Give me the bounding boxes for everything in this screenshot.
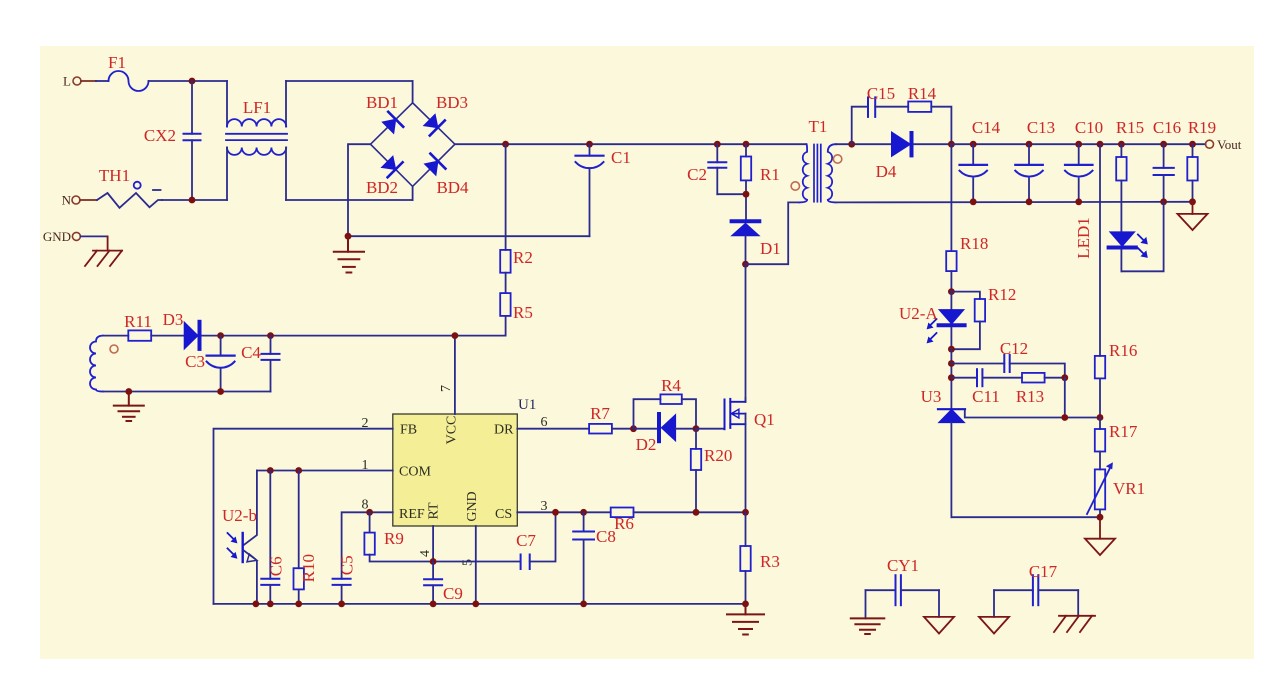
resistor R17: [1095, 418, 1138, 470]
MOSFET Q1: [696, 398, 775, 512]
svg-text:CX2: CX2: [144, 126, 176, 145]
svg-text:GND: GND: [43, 229, 71, 244]
svg-text:C4: C4: [241, 343, 261, 362]
wire: [103, 335, 128, 337]
capacitor C11: [951, 369, 1022, 406]
svg-text:R6: R6: [614, 514, 634, 533]
svg-text:L: L: [63, 74, 71, 89]
pin 8 wire (REF): [342, 512, 393, 579]
svg-text:7: 7: [439, 385, 454, 392]
wire: [1064, 378, 1066, 418]
node C1 tap: [586, 141, 593, 148]
svg-text:5: 5: [461, 559, 476, 566]
diode BD3: [424, 93, 468, 136]
svg-text:R7: R7: [590, 404, 610, 423]
node C3 bottom: [217, 388, 224, 395]
pin 5 wire (GND): [475, 526, 477, 604]
wire: [149, 80, 228, 82]
svg-text:C3: C3: [185, 352, 205, 371]
svg-text:D1: D1: [760, 239, 781, 258]
pin 2 wire (FB): [214, 429, 393, 604]
diode D2: [634, 414, 697, 454]
node U2-b emitter rail: [253, 601, 260, 608]
svg-text:C8: C8: [596, 527, 616, 546]
node C12 left: [948, 360, 955, 367]
svg-text:REF: REF: [399, 507, 425, 522]
ground triangle (output): [1178, 202, 1208, 230]
svg-text:BD2: BD2: [366, 178, 398, 197]
capacitor C12: [951, 339, 1064, 378]
svg-text:T1: T1: [809, 117, 828, 136]
node VR1 bottom: [1097, 514, 1104, 521]
svg-text:C14: C14: [972, 118, 1001, 137]
node R16 top: [1097, 141, 1104, 148]
capacitor C17: [994, 562, 1078, 605]
node C3 top: [217, 332, 224, 339]
resistor R20: [691, 429, 733, 513]
capacitor C4: [241, 336, 279, 392]
node R19 bottom: [1189, 198, 1196, 205]
ground (CY1 left): [851, 590, 885, 634]
resistor R16: [1095, 144, 1138, 417]
ground (primary): [334, 236, 364, 272]
ground triangle (C17 left): [979, 590, 1009, 633]
svg-text:FB: FB: [400, 423, 417, 438]
node C4 top: [267, 332, 274, 339]
resistor R14: [908, 102, 931, 112]
capacitor C5: [333, 555, 357, 604]
svg-text:U2-b: U2-b: [222, 506, 257, 525]
node R16/R17: [1097, 414, 1104, 421]
svg-text:TH1: TH1: [99, 166, 130, 185]
port L: [63, 74, 96, 89]
node R1 top: [743, 141, 750, 148]
resistor R2: [500, 144, 533, 272]
node C6 top: [267, 467, 274, 474]
svg-text:C15: C15: [867, 84, 895, 103]
svg-text:R13: R13: [1016, 387, 1044, 406]
chassis ground (GND port): [85, 236, 122, 266]
svg-text:R1: R1: [760, 165, 780, 184]
node R10 top: [295, 467, 302, 474]
pin 6 wire (DR): [517, 428, 589, 430]
node bridge minus: [345, 233, 352, 240]
resistor R1: [741, 144, 780, 219]
wire bottom rail to bridge: [286, 199, 413, 201]
resistor R3: [740, 512, 780, 604]
wire secondary bottom rail: [836, 201, 1193, 204]
svg-text:R19: R19: [1188, 118, 1216, 137]
node VCC tap: [452, 332, 459, 339]
wire bridge plus rail: [455, 143, 807, 145]
svg-text:4: 4: [418, 550, 433, 557]
resistor R6: [611, 508, 746, 534]
wire U3 anode to VR1 bottom: [951, 516, 1100, 518]
resistor R5: [500, 273, 533, 336]
aux winding: [90, 336, 103, 392]
svg-text:D2: D2: [636, 435, 657, 454]
diode BD2: [366, 156, 403, 197]
svg-text:C1: C1: [611, 148, 631, 167]
node ref join: [1061, 414, 1068, 421]
wire: [162, 199, 227, 201]
svg-text:LED1: LED1: [1074, 217, 1093, 259]
node C16 bottom: [1160, 198, 1167, 205]
svg-text:C11: C11: [972, 387, 1000, 406]
thermistor TH1: [97, 166, 162, 208]
pin 3 wire (CS): [517, 511, 610, 513]
node D2/R20/gate: [693, 425, 700, 432]
wire D1 to primary bottom: [746, 202, 800, 264]
ground triangle (VR1): [1085, 517, 1115, 555]
node C2: [714, 141, 721, 148]
node C6 bottom: [267, 601, 274, 608]
svg-text:C9: C9: [443, 584, 463, 603]
node R20/CS: [693, 509, 700, 516]
ground (main): [727, 604, 764, 635]
resistor R11: [124, 312, 184, 341]
wire aux bottom: [103, 391, 271, 393]
node U2A bottom: [948, 346, 955, 353]
wire bridge minus to ground rail: [348, 144, 590, 236]
diode BD4: [425, 154, 470, 197]
svg-text:C16: C16: [1153, 118, 1181, 137]
wire: [950, 349, 952, 409]
node R1/C2: [743, 191, 750, 198]
svg-text:R9: R9: [384, 529, 404, 548]
transformer T1 secondary winding: [828, 144, 836, 202]
svg-text:C17: C17: [1029, 562, 1058, 581]
svg-text:GND: GND: [465, 491, 480, 521]
capacitor CX2: [144, 81, 201, 200]
svg-text:N: N: [62, 193, 72, 208]
svg-text:Vout: Vout: [1217, 137, 1242, 152]
LED LED1: [1074, 202, 1164, 271]
svg-text:R2: R2: [513, 248, 533, 267]
svg-text:VR1: VR1: [1113, 479, 1145, 498]
svg-text:BD3: BD3: [436, 93, 468, 112]
node C14 bottom: [970, 198, 977, 205]
common-mode choke LF1: [226, 81, 287, 200]
polarity dot aux: [110, 345, 118, 353]
node R14/R18 tap: [948, 141, 955, 148]
node C16 top: [1160, 141, 1167, 148]
svg-text:R3: R3: [760, 552, 780, 571]
optocoupler U2-b (transistor): [222, 471, 257, 604]
svg-text:C2: C2: [687, 165, 707, 184]
capacitor C9: [424, 562, 463, 604]
diode D4: [876, 132, 953, 181]
node C10 top: [1075, 141, 1082, 148]
svg-text:C5: C5: [338, 555, 357, 575]
node R3 bottom / ground: [742, 601, 749, 608]
polarity dot secondary: [833, 155, 841, 163]
svg-text:F1: F1: [108, 53, 126, 72]
fuse F1: [109, 71, 149, 91]
IC U1 body: [393, 414, 518, 526]
svg-text:VCC: VCC: [445, 416, 460, 445]
shunt reference U3: [921, 387, 1100, 517]
wire secondary top: [836, 143, 892, 145]
node R19 top: [1189, 141, 1196, 148]
resistor R10: [294, 471, 319, 604]
svg-text:R15: R15: [1116, 118, 1144, 137]
capacitor C8: [573, 512, 616, 604]
capacitor C13: [1015, 118, 1055, 202]
node R15 top: [1118, 141, 1125, 148]
svg-text:Q1: Q1: [754, 410, 775, 429]
resistor R13: [1016, 373, 1065, 406]
diode BD1: [366, 93, 403, 134]
transformer T1 core: [814, 145, 821, 202]
svg-text:R14: R14: [908, 84, 937, 103]
resistor R15: [1116, 118, 1144, 232]
svg-text:R20: R20: [704, 446, 732, 465]
capacitor C2: [687, 144, 746, 194]
node Q1 source / CS: [742, 509, 749, 516]
capacitor CY1: [866, 556, 940, 605]
potentiometer VR1: [1087, 462, 1145, 517]
capacitor C3: [185, 336, 234, 392]
node C11/C12 right: [1061, 374, 1068, 381]
svg-text:D3: D3: [163, 310, 184, 329]
bridge frame: [371, 103, 455, 187]
resistor R4: [634, 376, 697, 429]
resistor R19: [1187, 118, 1216, 202]
resistor R18: [946, 144, 988, 291]
svg-text:U3: U3: [921, 387, 942, 406]
svg-text:R4: R4: [661, 376, 681, 395]
svg-text:6: 6: [541, 415, 548, 430]
capacitor C14: [960, 118, 1001, 202]
wire up from sec top: [852, 107, 868, 145]
node L-CX2: [189, 78, 196, 85]
node REF/R9: [366, 509, 373, 516]
svg-text:C10: C10: [1075, 118, 1103, 137]
capacitor C7: [516, 512, 555, 569]
node C13 bottom: [1026, 198, 1033, 205]
svg-text:CY1: CY1: [887, 556, 919, 575]
capacitor C1: [576, 144, 631, 236]
ground (aux): [114, 392, 144, 422]
svg-text:RT: RT: [427, 502, 442, 519]
port N: [62, 193, 97, 208]
node C5 bottom: [338, 601, 345, 608]
node R2 tap: [502, 141, 509, 148]
resistor R7: [589, 404, 633, 434]
node pin5 rail: [472, 601, 479, 608]
node C11 left: [948, 374, 955, 381]
svg-text:C7: C7: [516, 531, 536, 550]
wire bottom rail: [214, 603, 746, 605]
svg-text:COM: COM: [399, 465, 431, 480]
diode D1: [732, 221, 781, 264]
node R10 bottom: [295, 601, 302, 608]
wire: [96, 80, 109, 82]
svg-text:CS: CS: [495, 507, 512, 522]
svg-text:R18: R18: [960, 234, 988, 253]
node C9 bottom: [430, 601, 437, 608]
svg-text:R12: R12: [988, 285, 1016, 304]
node U2A top: [948, 288, 955, 295]
node C8/CS: [580, 509, 587, 516]
pin 1 wire (COM): [257, 470, 393, 472]
svg-text:R17: R17: [1109, 422, 1138, 441]
svg-text:R11: R11: [124, 312, 152, 331]
node sec top: [848, 141, 855, 148]
port GND: [43, 229, 108, 244]
capacitor C16: [1153, 118, 1181, 202]
svg-text:D4: D4: [876, 162, 897, 181]
svg-text:C6: C6: [266, 556, 285, 576]
node C8 bottom: [580, 601, 587, 608]
wire down to rail: [931, 107, 951, 145]
svg-text:C13: C13: [1027, 118, 1055, 137]
node C14 top: [970, 141, 977, 148]
svg-text:R5: R5: [513, 303, 533, 322]
pin 4 wire (RT): [432, 526, 434, 562]
capacitor C10: [1065, 118, 1103, 202]
optocoupler U2-A (LED): [899, 292, 965, 350]
svg-text:R16: R16: [1109, 341, 1137, 360]
resistor R12: [951, 285, 1016, 349]
node C10 bottom: [1075, 198, 1082, 205]
node aux gnd: [125, 388, 132, 395]
node R7/D2: [630, 425, 637, 432]
capacitor C6: [261, 471, 285, 604]
node C7/CS: [552, 509, 559, 516]
svg-text:LF1: LF1: [243, 98, 271, 117]
node N-CX2: [189, 197, 196, 204]
svg-text:DR: DR: [494, 423, 514, 438]
node pin4/C9: [430, 558, 437, 565]
wire top rail to bridge: [286, 80, 413, 82]
svg-text:BD4: BD4: [436, 178, 469, 197]
node C13 top: [1026, 141, 1033, 148]
node D1 bottom: [742, 261, 749, 268]
svg-text:BD1: BD1: [366, 93, 398, 112]
polarity dot primary: [791, 182, 799, 190]
svg-text:U1: U1: [518, 397, 536, 413]
diode D3: [163, 310, 506, 349]
pin 7 wire (VCC): [454, 336, 456, 414]
transformer T1 primary winding: [799, 144, 807, 202]
capacitor C15: [868, 97, 875, 117]
wire output top rail: [951, 143, 1205, 145]
svg-text:U2-A: U2-A: [899, 304, 938, 323]
port Vout: [1206, 137, 1242, 152]
svg-text:C12: C12: [1000, 339, 1028, 358]
resistor R9: [364, 512, 520, 561]
svg-text:R10: R10: [299, 554, 318, 582]
ground triangle (CY1 right): [924, 590, 954, 633]
wire D1 node down to Q1 drain: [745, 264, 747, 402]
wire: [875, 106, 908, 108]
chassis ground (C17 right): [1054, 590, 1095, 632]
